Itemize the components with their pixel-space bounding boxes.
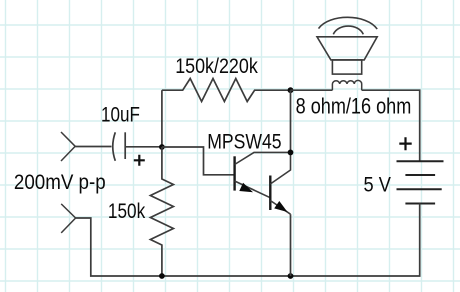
transistor Q1 collector xyxy=(235,152,291,164)
transistor Q2 emitter xyxy=(270,201,290,215)
svg-text:150k: 150k xyxy=(108,200,146,223)
svg-text:5 V: 5 V xyxy=(364,173,392,197)
transistor Q2 collector xyxy=(270,152,290,184)
capacitor C1 polarity + xyxy=(134,155,145,166)
wire node B down to collector node xyxy=(290,90,292,152)
wire node A up to resistor R1 xyxy=(161,90,163,147)
capacitor C1 plates xyxy=(113,132,125,161)
transistor Q1 emitter xyxy=(235,181,271,198)
collector node junction dot xyxy=(288,150,294,156)
input source label 200mV p-p xyxy=(14,171,106,194)
svg-text:150k/220k: 150k/220k xyxy=(175,54,258,78)
wire node B to speaker coil xyxy=(291,89,333,91)
wire input to capacitor xyxy=(75,146,111,148)
speaker impedance label 8 ohm/16 ohm xyxy=(296,94,412,119)
ground rail junction dot left xyxy=(159,273,165,279)
transistor Q2 emitter arrow xyxy=(274,201,287,212)
transistor type label MPSW45 xyxy=(207,131,281,154)
wire speaker coil to battery corner xyxy=(362,90,420,161)
resistor R1 value label 150k/220k xyxy=(175,54,258,78)
speaker voice coil xyxy=(332,80,361,90)
wire capacitor to node A xyxy=(125,146,162,148)
wire lower terminal to ground rail xyxy=(76,218,162,276)
speaker dome inner arc xyxy=(333,26,363,34)
wire Q2 emitter to ground rail xyxy=(290,214,292,276)
svg-text:MPSW45: MPSW45 xyxy=(207,131,281,154)
resistor R2 150k (vertical) xyxy=(150,147,173,276)
wire node A to transistor Q1 base xyxy=(162,147,234,175)
transistor Q1 base bar xyxy=(233,156,235,190)
battery polarity + xyxy=(399,137,411,150)
speaker magnet xyxy=(332,60,361,74)
input terminal (upper) xyxy=(61,132,75,161)
speaker cone xyxy=(317,37,377,60)
wire battery bottom to ground rail xyxy=(291,204,420,277)
ground rail junction dot right xyxy=(288,273,294,279)
capacitor C1 value label 10uF xyxy=(101,104,140,127)
transistor Q1 emitter arrow xyxy=(239,183,253,193)
battery BT1 plates xyxy=(397,161,444,203)
svg-text:10uF: 10uF xyxy=(101,104,140,127)
resistor R2 value label 150k xyxy=(108,200,146,223)
battery value label 5 V xyxy=(364,173,392,197)
input terminal (lower) xyxy=(61,204,75,233)
resistor R1 150k/220k xyxy=(162,79,291,102)
ground rail wire middle xyxy=(162,275,291,277)
svg-text:8 ohm/16 ohm: 8 ohm/16 ohm xyxy=(296,94,412,119)
svg-text:200mV p-p: 200mV p-p xyxy=(14,171,106,194)
transistor Q2 base bar xyxy=(269,176,271,211)
node A junction dot xyxy=(159,144,165,150)
speaker dome outer arc xyxy=(319,17,378,29)
node B junction dot (top right) xyxy=(288,87,294,93)
